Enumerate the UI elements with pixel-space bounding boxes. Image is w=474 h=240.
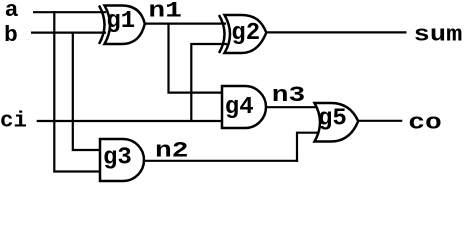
svg-text:g4: g4 [225,94,254,121]
svg-text:n2: n2 [155,138,189,163]
wire ci branch to g2 lower input [191,44,227,121]
svg-text:ci: ci [0,109,27,134]
svg-text:sum: sum [414,23,463,48]
svg-text:a: a [5,0,19,23]
wire ci input to g4 [37,120,222,122]
wire n1 net g1 to g2 [145,23,227,25]
wire a branch to g3 lower input [54,11,100,171]
wire b input [31,31,106,33]
wire co output [358,120,402,122]
svg-text:g2: g2 [231,20,260,47]
svg-text:g3: g3 [103,145,132,172]
svg-text:g1: g1 [106,8,135,35]
wire sum output [266,31,407,33]
wire n2 net g3 output [144,160,298,162]
wire n3 net g4 to g5 [266,106,320,108]
wire n2 riser to g5 lower input [297,133,320,162]
and gate g3 [100,139,144,181]
wire b branch to g3 upper input [73,32,100,151]
svg-text:n3: n3 [272,83,306,108]
wire n1 branch to g4 upper input [169,23,223,93]
svg-text:b: b [4,23,18,48]
wire a input [33,11,106,13]
xor gate g2 [219,15,266,53]
svg-text:g5: g5 [318,106,347,133]
svg-text:co: co [408,110,442,135]
or gate g5 [315,103,359,142]
xor gate g1 [99,6,145,45]
and gate g4 [222,86,266,128]
svg-text:n1: n1 [148,0,182,23]
